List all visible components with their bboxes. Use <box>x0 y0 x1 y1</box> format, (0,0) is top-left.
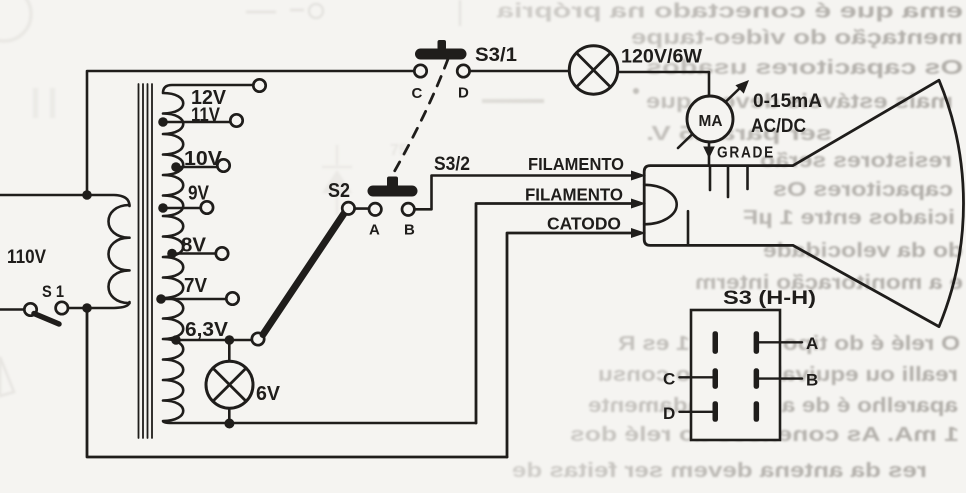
svg-text:6V: 6V <box>256 383 281 405</box>
wire: left vertical to bottom rail <box>87 308 507 457</box>
faint doodle top-center <box>246 10 304 12</box>
tap 8V <box>172 252 216 255</box>
terminal 12V <box>253 79 265 91</box>
S3 lead D <box>679 411 712 413</box>
wire: junction to primary bottom <box>87 302 130 308</box>
switch S2 contact B <box>402 203 414 215</box>
transformer T1 primary winding <box>109 205 130 303</box>
svg-text:10V: 10V <box>184 148 223 170</box>
meter MA <box>687 96 733 142</box>
switch S1 right contact <box>56 302 68 314</box>
CRT filament loop <box>644 185 677 225</box>
wire: upper 110V line into primary top <box>0 195 130 206</box>
CRT tube outline <box>644 80 963 326</box>
svg-text:C: C <box>663 370 675 389</box>
svg-text:iciados entre 1 µF: iciados entre 1 µF <box>743 207 955 229</box>
svg-text:A: A <box>806 334 818 353</box>
svg-text:FILAMENTO: FILAMENTO <box>525 185 623 205</box>
svg-text:S3 (H-H): S3 (H-H) <box>723 288 816 309</box>
CRT cathode pin <box>687 211 690 245</box>
faint diode bleed <box>322 170 352 193</box>
svg-text:0-15mA: 0-15mA <box>753 91 822 112</box>
wire: catodo riser <box>507 233 634 457</box>
svg-text:S3/1: S3/1 <box>475 45 517 66</box>
svg-text:ema que é conectado na própria: ema que é conectado na própria <box>496 1 963 23</box>
S3 lead B <box>759 377 802 379</box>
CRT grade pins <box>710 166 748 197</box>
node: junction upper-110V / top feed <box>82 190 92 200</box>
faint dot <box>633 88 639 94</box>
wire: S1 to junction <box>68 307 87 310</box>
S3 lead C <box>679 376 712 378</box>
tap 11V <box>163 121 230 124</box>
faint bottom-left triangle <box>0 357 14 396</box>
switch S1 left contact <box>24 303 36 315</box>
S3 contact bars <box>713 331 719 354</box>
svg-text:S 1: S 1 <box>42 282 64 301</box>
transformer T1 core <box>139 84 153 438</box>
svg-text:CATODO: CATODO <box>547 214 621 234</box>
lamp 6V <box>206 361 253 408</box>
switch S3/1 contact C <box>414 65 426 77</box>
svg-text:S2: S2 <box>328 180 350 202</box>
wire: B to filament line 1 <box>414 176 634 210</box>
S3 detail box <box>691 310 780 440</box>
svg-text:S3/2: S3/2 <box>434 154 470 175</box>
svg-text:D: D <box>663 404 675 423</box>
lamp 120V/6W <box>569 46 617 94</box>
svg-text:D: D <box>458 85 469 102</box>
wire: D to lamp1 <box>470 70 571 73</box>
S3 lead A <box>759 341 802 343</box>
svg-text:O relé é do tipo MC2RC1 es R: O relé é do tipo MC2RC1 es R <box>617 333 960 355</box>
switch S2 pole contact <box>342 202 354 214</box>
switch S2 contact A <box>369 203 381 215</box>
svg-text:8V: 8V <box>181 235 207 257</box>
svg-text:res da antena devem ser feitas: res da antena devem ser feitas de <box>512 460 927 482</box>
faint top-left arc <box>0 0 31 41</box>
switch S3/1 contact D <box>457 65 469 77</box>
switch S3/1 actuator bar <box>415 49 467 60</box>
svg-text:6,3V: 6,3V <box>185 319 229 341</box>
svg-text:11V: 11V <box>191 105 220 126</box>
switch S2/S3-2 actuator bar <box>368 186 418 197</box>
arrowhead filament2 <box>631 199 646 209</box>
faint mark left <box>33 88 38 118</box>
meter needle arrow <box>678 86 742 148</box>
wire: meter to grade arrow <box>708 142 711 164</box>
wire: lamp1 to meter <box>618 72 709 96</box>
svg-text:FILAMENTO: FILAMENTO <box>528 154 624 174</box>
svg-text:AC/DC: AC/DC <box>751 116 806 137</box>
svg-text:9V: 9V <box>188 183 210 205</box>
arrowhead filament1 <box>631 171 646 181</box>
wire: filament line 2 riser <box>476 204 634 424</box>
svg-text:B: B <box>806 371 818 390</box>
svg-text:capacitores Os: capacitores Os <box>773 179 953 201</box>
svg-text:120V/6W: 120V/6W <box>621 47 702 68</box>
faint dash row4 left <box>482 99 544 103</box>
svg-text:7V: 7V <box>184 275 208 297</box>
switch S1 lever <box>34 314 59 325</box>
wire pole to A <box>355 207 369 210</box>
tap 9V <box>163 207 201 210</box>
tap 10V <box>176 166 217 169</box>
svg-text:GRADE: GRADE <box>717 145 775 162</box>
wire: left vertical to top rail <box>87 71 414 195</box>
svg-text:do da velocidade: do da velocidade <box>763 240 963 262</box>
svg-text:C: C <box>412 85 423 102</box>
transformer T1 secondary winding <box>163 85 476 423</box>
svg-text:110V: 110V <box>7 247 46 268</box>
lamp 6V leads <box>228 340 231 424</box>
tap 6.3V <box>176 339 252 342</box>
svg-text:A: A <box>369 222 380 239</box>
node lamp bottom <box>224 419 234 429</box>
svg-text:resistores serão: resistores serão <box>760 150 952 172</box>
wire: lower 110V line stub at left edge <box>0 308 24 311</box>
svg-text:B: B <box>404 222 415 239</box>
node: junction S1 / bottom feed <box>82 303 92 313</box>
switch S2 lever from 6.3V terminal <box>263 212 345 335</box>
dashed mechanical link S3/1-S3/2 <box>394 59 449 173</box>
arrowhead catodo <box>631 228 646 238</box>
svg-text:MA: MA <box>699 113 723 130</box>
tap 7V <box>161 298 226 301</box>
